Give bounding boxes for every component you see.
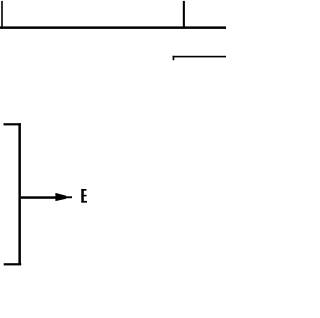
- wire: top horizontal bus (full width): [0, 26, 226, 29]
- wire: right mid horizontal with corner hook: [173, 56, 226, 58]
- node E label: [81, 189, 87, 203]
- wire: top-left vertical stub: [1, 1, 3, 29]
- bracket: top horizontal arm: [4, 123, 21, 125]
- wire: arrow shaft to node E: [21, 196, 56, 199]
- arrowhead: [55, 193, 66, 201]
- bracket: vertical side: [18, 123, 21, 265]
- wire: vertical tick junction on top bus: [183, 1, 185, 29]
- bracket: bottom horizontal arm: [4, 263, 22, 265]
- arrow tip line: [66, 196, 72, 198]
